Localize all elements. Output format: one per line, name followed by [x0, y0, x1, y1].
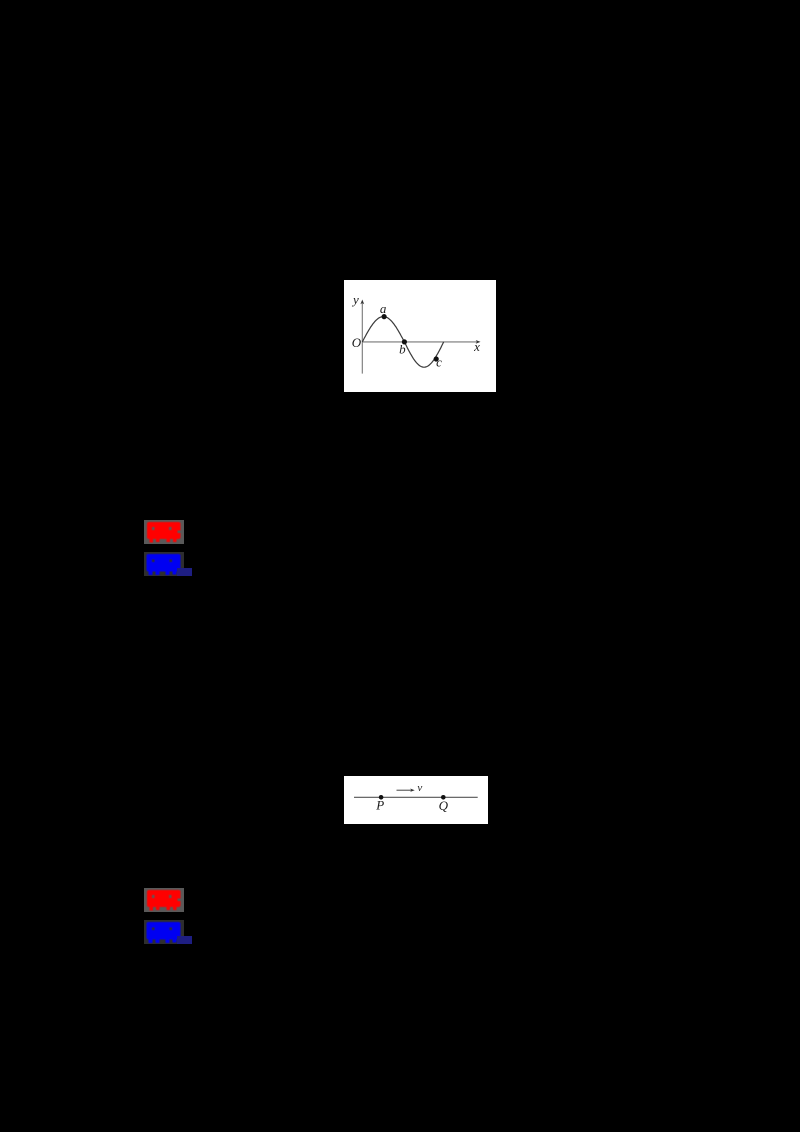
svg-text:v: v — [417, 782, 422, 794]
svg-text:y: y — [351, 292, 359, 307]
svg-text:P: P — [375, 798, 384, 813]
svg-text:a: a — [380, 301, 387, 316]
svg-text:x: x — [473, 339, 480, 354]
svg-text:O: O — [352, 335, 362, 350]
svg-text:b: b — [399, 341, 406, 356]
svg-text:c: c — [436, 355, 442, 370]
svg-text:Q: Q — [439, 798, 449, 813]
